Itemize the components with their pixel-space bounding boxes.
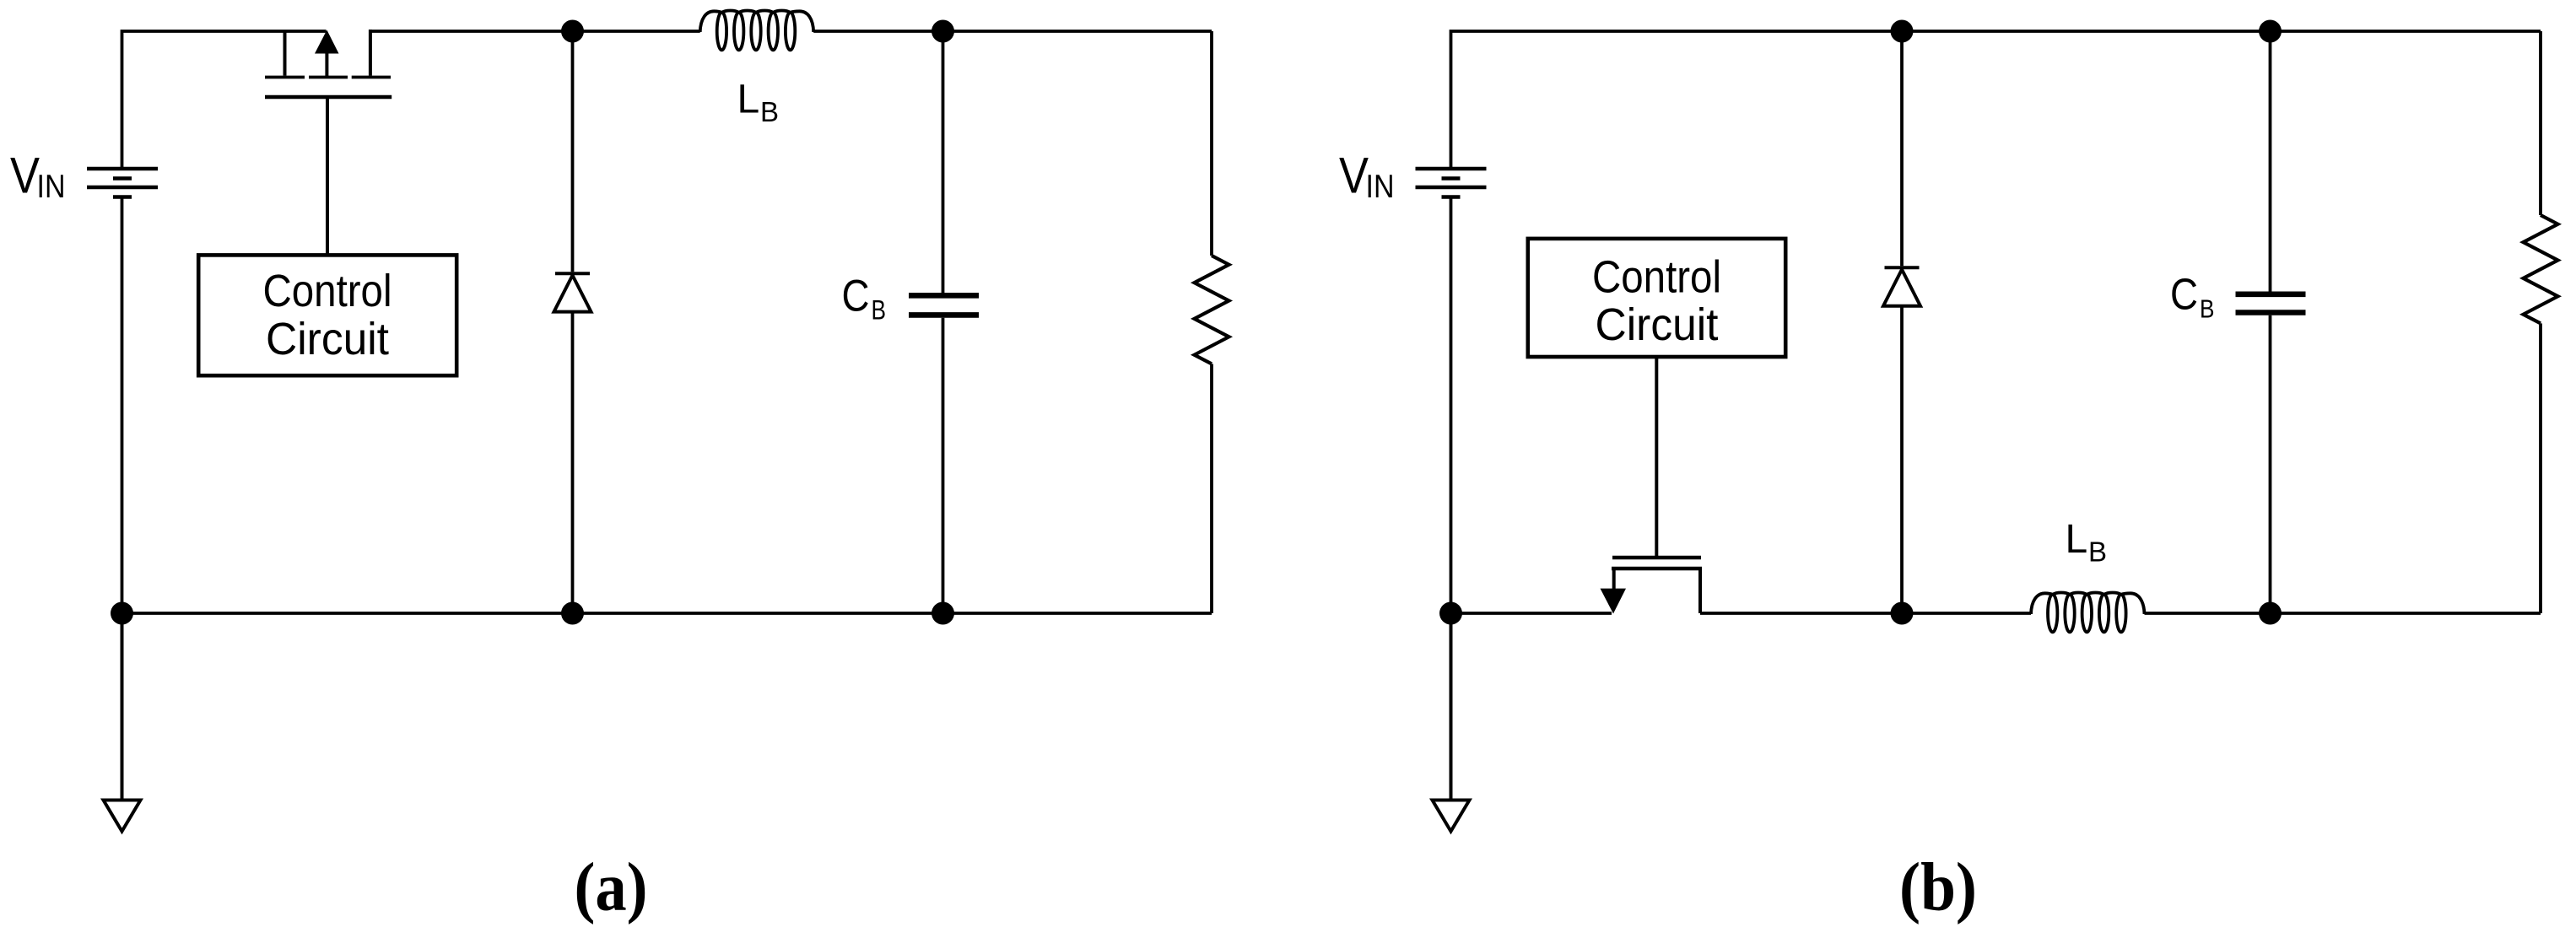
svg-text:Circuit: Circuit bbox=[1596, 299, 1719, 350]
svg-text:(b): (b) bbox=[1899, 849, 1977, 925]
wire: inductor to output bottom rail (b) bbox=[2145, 612, 2541, 615]
wire: right rail bottom (a) bbox=[1210, 364, 1213, 613]
inductor L_B (a) bbox=[700, 11, 814, 51]
control circuit box U1 (a) bbox=[198, 255, 456, 375]
wire: capacitor bottom to bottom rail (a) bbox=[942, 318, 945, 613]
wire: battery negative down to bottom rail (b) bbox=[1450, 199, 1453, 614]
wire: inductor to output node and load (a) bbox=[813, 30, 1212, 33]
ground (b) bbox=[1433, 613, 1470, 832]
wire: battery positive / top rail (b) bbox=[1451, 31, 2541, 167]
wire: right rail top (b) bbox=[2539, 31, 2542, 215]
wire: diode anode to bottom rail (a) bbox=[571, 312, 575, 613]
svg-text:B: B bbox=[872, 294, 887, 325]
transistor M1 switch (a) bbox=[265, 30, 392, 255]
control circuit box U2 (b) bbox=[1528, 239, 1785, 357]
svg-text:Circuit: Circuit bbox=[266, 314, 389, 364]
wire: output node to capacitor top (a) bbox=[942, 31, 945, 293]
svg-text:L: L bbox=[737, 78, 760, 122]
capacitor C_B (b) bbox=[2236, 294, 2306, 313]
transistor M2 low-side switch (b) bbox=[1601, 357, 1703, 614]
wire: MOSFET source to inductor (a) bbox=[370, 30, 700, 33]
svg-text:B: B bbox=[2200, 294, 2215, 323]
svg-text:B: B bbox=[2088, 536, 2107, 568]
wire: battery negative down to bottom rail (a) bbox=[121, 199, 124, 614]
node: capacitor top junction (b) bbox=[2259, 20, 2282, 43]
node: output junction top (a) bbox=[932, 20, 954, 43]
node: battery negative junction (a) bbox=[111, 602, 133, 625]
svg-text:IN: IN bbox=[37, 169, 66, 205]
node: capacitor bottom junction (b) bbox=[2259, 602, 2282, 625]
capacitor C_B (a) bbox=[909, 295, 979, 315]
battery V_IN (a) bbox=[87, 169, 158, 197]
svg-text:Control: Control bbox=[1592, 252, 1721, 303]
wire: MOSFET drain to diode anode node (b) bbox=[1700, 612, 2031, 615]
resistor R load (b) bbox=[2524, 215, 2558, 323]
wire: battery positive to MOSFET drain (a) bbox=[122, 31, 327, 167]
wire: capacitor bottom to bottom rail (b) bbox=[2269, 315, 2272, 613]
resistor R load (a) bbox=[1195, 256, 1229, 364]
wire: top rail to capacitor top (b) bbox=[2269, 31, 2272, 292]
node: diode anode junction (a) bbox=[561, 602, 584, 625]
wire: top rail down to diode cathode (b) bbox=[1900, 31, 1904, 266]
ground (a) bbox=[104, 613, 141, 832]
svg-text:IN: IN bbox=[1366, 169, 1395, 205]
svg-text:V: V bbox=[10, 147, 40, 203]
node: switch node junction (a) bbox=[561, 20, 584, 43]
node: battery negative junction (b) bbox=[1439, 602, 1462, 625]
node: diode anode junction (b) bbox=[1891, 602, 1914, 625]
svg-text:Control: Control bbox=[263, 266, 392, 316]
svg-text:C: C bbox=[2170, 271, 2198, 320]
battery V_IN (b) bbox=[1416, 169, 1487, 197]
wire: right rail bottom (b) bbox=[2539, 323, 2542, 613]
wire: right rail top (a) bbox=[1210, 31, 1213, 256]
inductor L_B (b) bbox=[2031, 593, 2145, 633]
node: diode cathode junction top rail (b) bbox=[1891, 20, 1914, 43]
diode D2 freewheeling (b) bbox=[1883, 267, 1920, 305]
svg-text:L: L bbox=[2066, 517, 2088, 562]
wire: diode anode to bottom rail (b) bbox=[1900, 306, 1904, 613]
wire: switch node down to diode cathode (a) bbox=[571, 31, 575, 272]
wire: bottom rail (a) bbox=[122, 612, 1212, 615]
svg-text:V: V bbox=[1339, 147, 1369, 203]
svg-text:B: B bbox=[760, 96, 779, 127]
wire: bottom rail battery to MOSFET source (b) bbox=[1451, 612, 1612, 615]
diode D1 freewheeling (a) bbox=[554, 273, 591, 311]
svg-text:C: C bbox=[842, 272, 870, 321]
svg-text:(a): (a) bbox=[575, 849, 648, 925]
node: capacitor bottom junction (a) bbox=[932, 602, 954, 625]
